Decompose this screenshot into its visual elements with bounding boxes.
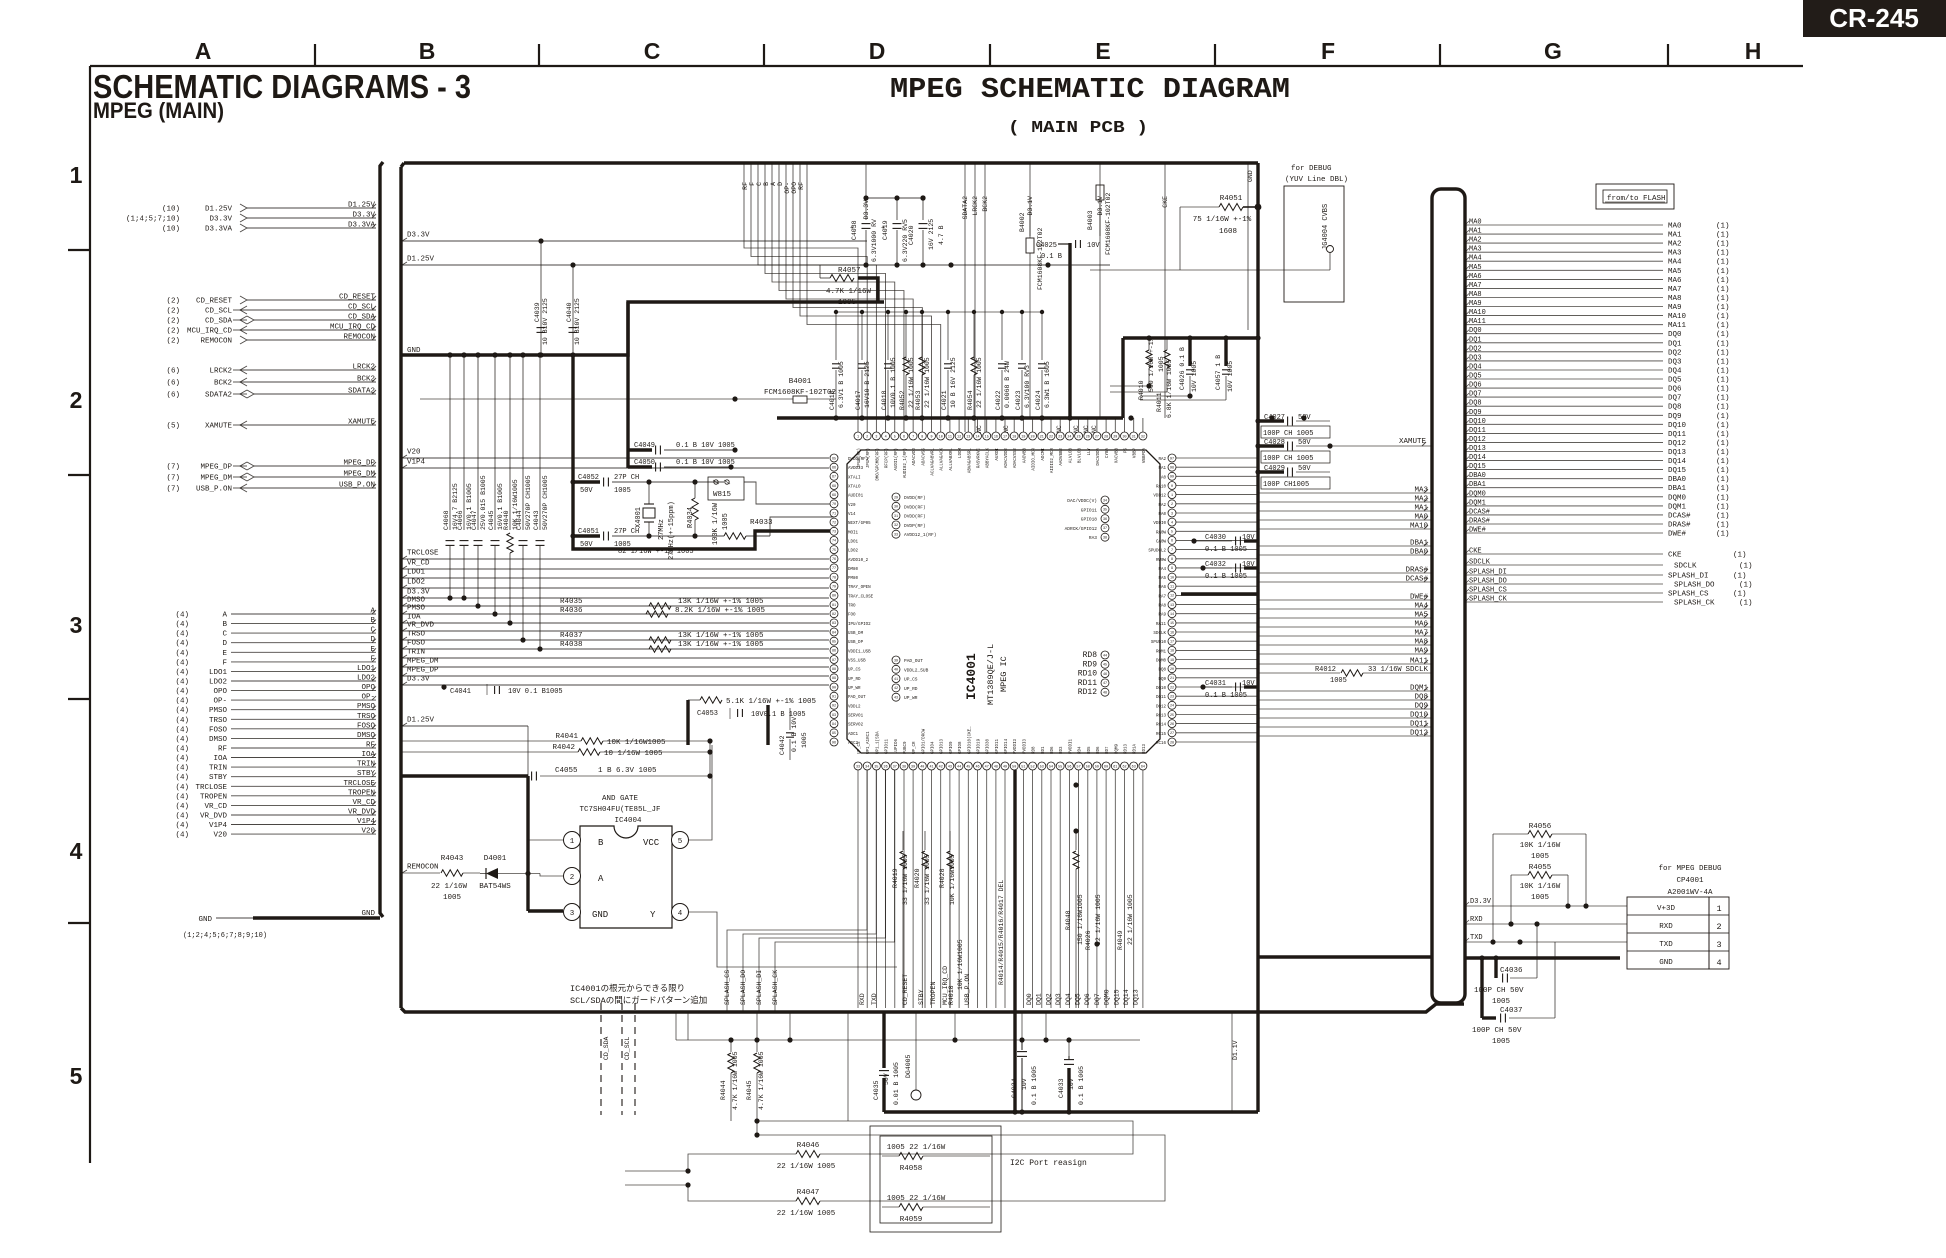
bottom right vertical wires	[676, 1012, 1046, 1040]
svg-text:R4040: R4040	[503, 510, 510, 530]
IC4001 top pin labels	[857, 448, 1147, 481]
svg-text:(1): (1)	[1716, 232, 1730, 240]
node D3.3V stub wire	[402, 589, 829, 599]
C4025 branch	[1068, 243, 1071, 418]
svg-text:CD_SCL: CD_SCL	[348, 304, 376, 312]
svg-text:MA10: MA10	[1668, 313, 1687, 321]
svg-text:33: 33	[894, 534, 898, 538]
svg-text:DMSO: DMSO	[209, 736, 228, 744]
svg-text:36: 36	[884, 765, 888, 769]
svg-text:3: 3	[1716, 940, 1721, 950]
svg-text:USB_DM: USB_DM	[848, 632, 864, 636]
node TRCLOSE stub wire	[402, 550, 829, 560]
svg-text:RD11: RD11	[1078, 679, 1097, 688]
svg-text:IC4004: IC4004	[614, 817, 642, 825]
svg-text:R4036: R4036	[560, 607, 583, 615]
svg-text:DQ8: DQ8	[1469, 400, 1482, 408]
svg-text:38: 38	[902, 765, 906, 769]
svg-text:MPEG_DP: MPEG_DP	[200, 464, 232, 472]
svg-text:75: 75	[832, 549, 836, 553]
wire net MA6	[1258, 621, 1432, 629]
svg-text:DQ2: DQ2	[1469, 345, 1482, 353]
svg-text:10V: 10V	[1242, 534, 1255, 542]
svg-text:ADACVDD: ADACVDD	[913, 448, 917, 466]
svg-text:RA6: RA6	[1158, 586, 1166, 590]
svg-text:(1): (1)	[1716, 458, 1730, 466]
svg-text:LDO2: LDO2	[357, 675, 375, 683]
svg-text:RASVRKVC: RASVRKVC	[978, 448, 982, 469]
svg-text:MPEG (MAIN): MPEG (MAIN)	[93, 98, 224, 123]
svg-text:R4046: R4046	[797, 1142, 820, 1150]
svg-text:AVDD10_2: AVDD10_2	[848, 559, 869, 563]
svg-text:XAMUTE: XAMUTE	[348, 419, 376, 427]
node D1.25V stub low	[402, 717, 528, 777]
svg-text:96: 96	[832, 741, 836, 745]
svg-text:R4041: R4041	[555, 733, 578, 741]
svg-text:GND: GND	[1247, 170, 1254, 182]
svg-text:MA4: MA4	[1469, 255, 1482, 263]
svg-text:B: B	[222, 621, 227, 629]
svg-text:(1): (1)	[1716, 476, 1730, 484]
svg-text:6.3V1000 RV: 6.3V1000 RV	[871, 219, 878, 262]
capacitor C4019	[881, 195, 909, 265]
node E (4)	[175, 646, 376, 658]
svg-text:95: 95	[832, 732, 836, 736]
svg-text:AUDI02_1(RF): AUDI02_1(RF)	[903, 448, 908, 478]
svg-text:R4038: R4038	[560, 641, 583, 649]
svg-text:ADACVSS: ADACVSS	[922, 448, 926, 466]
resistor R4045	[746, 1040, 765, 1138]
svg-text:50V270P CH1005: 50V270P CH1005	[542, 475, 549, 530]
svg-text:+: +	[881, 225, 885, 233]
resistor R4010	[1110, 337, 1165, 400]
ferrite bead B4003	[1087, 185, 1112, 418]
capacitor C4032	[1200, 561, 1258, 581]
crystal ground trace	[573, 355, 834, 549]
svg-text:IC4001の根元からできる限り: IC4001の根元からできる限り	[570, 983, 685, 994]
wire cluster top tie	[834, 310, 1044, 314]
svg-text:NC: NC	[1003, 425, 1010, 433]
svg-text:RD13: RD13	[1125, 743, 1129, 754]
svg-text:SDCLK: SDCLK	[1153, 632, 1166, 636]
svg-text:DQM1: DQM1	[1410, 685, 1429, 693]
node CD_RESET	[166, 294, 376, 306]
svg-text:AUXDI: AUXDI	[996, 448, 1000, 461]
svg-text:DACVDDA: DACVDDA	[1097, 448, 1101, 466]
svg-text:0.1 B 10V 1005: 0.1 B 10V 1005	[676, 442, 735, 450]
svg-text:(1): (1)	[1716, 223, 1730, 231]
svg-text:Y: Y	[650, 910, 656, 920]
svg-text:10K 1/16W: 10K 1/16W	[1520, 883, 1561, 891]
svg-text:32: 32	[1141, 435, 1145, 439]
svg-text:MT1389QE/J-L: MT1389QE/J-L	[986, 644, 996, 705]
svg-text:( MAIN PCB ): ( MAIN PCB )	[1008, 119, 1148, 138]
svg-text:(4): (4)	[175, 746, 189, 754]
svg-text:22: 22	[1049, 435, 1053, 439]
svg-text:12: 12	[1170, 595, 1174, 599]
svg-text:MPEG SCHEMATIC DIAGRAM: MPEG SCHEMATIC DIAGRAM	[890, 73, 1290, 106]
svg-text:FOSO: FOSO	[357, 722, 376, 730]
svg-text:12: 12	[957, 435, 961, 439]
svg-text:CKE: CKE	[1469, 548, 1482, 556]
diagram title	[890, 73, 1290, 138]
svg-text:(1): (1)	[1716, 512, 1730, 520]
svg-text:D3.3VA: D3.3VA	[348, 222, 376, 230]
C4033 thick stub	[1068, 1056, 1070, 1112]
wire staircase labels	[742, 182, 805, 194]
resistor R4053	[915, 312, 931, 421]
svg-text:DBA0: DBA0	[1469, 472, 1486, 480]
svg-text:(1): (1)	[1716, 295, 1730, 303]
svg-text:(4): (4)	[175, 784, 189, 792]
svg-text:DQ0: DQ0	[1469, 327, 1482, 335]
IC4001 bottom pin row	[854, 762, 1147, 770]
svg-text:55: 55	[1058, 765, 1062, 769]
svg-text:X4001: X4001	[635, 507, 643, 528]
svg-text:REMOCON: REMOCON	[200, 338, 232, 346]
svg-text:(6): (6)	[166, 380, 180, 388]
svg-text:PVDDI3: PVDDI3	[1014, 738, 1018, 754]
svg-text:22 1/16W 1005: 22 1/16W 1005	[1127, 894, 1134, 945]
node MPEG_DP stub wire	[402, 667, 829, 677]
wire RXD to CP4001	[1465, 916, 1627, 927]
svg-text:6.3V100 RV3: 6.3V100 RV3	[1024, 365, 1031, 408]
wire feed LRCK2	[972, 163, 979, 432]
svg-text:(1): (1)	[1716, 368, 1730, 376]
svg-text:2: 2	[570, 874, 575, 882]
svg-text:AUDI1(RF): AUDI1(RF)	[894, 448, 899, 471]
svg-text:3: 3	[875, 435, 877, 439]
wire feed SDATA2	[962, 163, 969, 432]
svg-text:R4054: R4054	[967, 390, 974, 410]
svg-text:4: 4	[1171, 521, 1173, 525]
svg-text:DQ15: DQ15	[1113, 989, 1120, 1005]
top ruler ticks	[315, 44, 1668, 66]
svg-text:LRCK2: LRCK2	[972, 196, 979, 216]
svg-text:6.3V1 B 1005: 6.3V1 B 1005	[838, 361, 845, 408]
svg-text:43: 43	[894, 697, 898, 701]
svg-text:41: 41	[894, 678, 898, 682]
svg-text:(5): (5)	[166, 423, 180, 431]
D1.1V bus upper right	[1123, 335, 1261, 418]
svg-text:DVDD(RF): DVDD(RF)	[904, 504, 926, 510]
node TROPEN (4)	[175, 789, 376, 801]
svg-text:23: 23	[1058, 435, 1062, 439]
GND wire to CP4001	[1258, 957, 1620, 958]
node C (4)	[175, 627, 376, 639]
svg-text:DQ11: DQ11	[1156, 696, 1167, 700]
svg-text:UP_RD: UP_RD	[848, 678, 861, 682]
svg-text:D: D	[869, 38, 886, 64]
svg-text:(4): (4)	[175, 755, 189, 763]
bottom right thick loop	[884, 1012, 1258, 1115]
svg-text:VDDI0: VDDI0	[1153, 522, 1166, 526]
svg-text:AIDIO2_MCR: AIDIO2_MCR	[1051, 448, 1055, 474]
svg-text:C: C	[756, 182, 763, 186]
svg-text:RA7: RA7	[1158, 595, 1166, 599]
svg-text:MA5: MA5	[1469, 264, 1482, 272]
svg-text:1 B 6.3V 1005: 1 B 6.3V 1005	[598, 767, 657, 775]
svg-text:C4031: C4031	[1205, 680, 1226, 688]
svg-text:MA9: MA9	[1469, 300, 1482, 308]
svg-text:D1.25V: D1.25V	[407, 256, 435, 264]
svg-text:LDO2: LDO2	[848, 550, 859, 554]
svg-text:22 1/16W 1005: 22 1/16W 1005	[908, 357, 915, 408]
svg-text:SDATA2: SDATA2	[962, 196, 969, 220]
svg-text:DQ13: DQ13	[1133, 989, 1140, 1005]
svg-text:97: 97	[1170, 457, 1174, 461]
svg-text:(4): (4)	[175, 822, 189, 830]
svg-text:1: 1	[1716, 904, 1721, 914]
svg-text:R4059: R4059	[900, 1216, 923, 1224]
left signal bus	[380, 162, 383, 917]
svg-text:13: 13	[966, 435, 970, 439]
wire feed GND2	[1247, 163, 1249, 330]
svg-text:10V: 10V	[1087, 242, 1100, 250]
svg-text:R4034: R4034	[687, 507, 695, 528]
svg-text:R4010: R4010	[1138, 380, 1145, 400]
svg-text:14: 14	[975, 435, 979, 439]
svg-text:0.1 B 10V: 0.1 B 10V	[791, 717, 798, 752]
svg-text:SPLASH_CS: SPLASH_CS	[1668, 591, 1709, 599]
svg-text:GPIO4: GPIO4	[932, 741, 936, 754]
svg-text:91: 91	[832, 696, 836, 700]
capacitor C4029	[1255, 465, 1330, 489]
capacitor C4018	[881, 312, 897, 421]
node D3.3VA input	[162, 222, 376, 234]
svg-text:27: 27	[1170, 732, 1174, 736]
svg-text:1005 22 1/16W: 1005 22 1/16W	[887, 1144, 946, 1152]
svg-text:R4044: R4044	[720, 1080, 727, 1100]
svg-text:(1): (1)	[1733, 591, 1747, 599]
svg-text:D3.3V: D3.3V	[1470, 898, 1492, 906]
capacitor C4045	[488, 352, 504, 616]
svg-text:(4): (4)	[175, 813, 189, 821]
svg-text:100K 1/16W: 100K 1/16W	[712, 502, 720, 545]
svg-text:UP1_1(SDA: UP1_1(SDA	[875, 731, 880, 754]
svg-text:B4002: B4002	[1019, 212, 1026, 232]
svg-text:(1;4;5;7;10): (1;4;5;7;10)	[126, 216, 180, 224]
svg-text:DQ11: DQ11	[1668, 431, 1687, 439]
svg-text:(1): (1)	[1716, 531, 1730, 539]
resistor R4059	[882, 1195, 990, 1224]
svg-text:22 1/16W 1005: 22 1/16W 1005	[1095, 894, 1102, 945]
capacitor C4026	[1140, 338, 1198, 399]
wire SPLASH jogs	[727, 770, 895, 1012]
resistor R4054	[967, 312, 983, 421]
svg-text:C4043: C4043	[533, 510, 540, 530]
svg-text:OP-: OP-	[784, 182, 791, 194]
row numbers	[70, 162, 83, 1089]
svg-text:XTALO: XTALO	[848, 486, 861, 490]
svg-text:10: 10	[939, 435, 943, 439]
svg-text:DQM0: DQM0	[1156, 660, 1167, 664]
svg-text:RD3: RD3	[1060, 746, 1064, 754]
wire feed D3.3VA	[863, 163, 870, 219]
svg-text:78: 78	[832, 576, 836, 580]
svg-text:RC16: RC16	[1156, 742, 1167, 746]
wire net MA1	[1258, 505, 1432, 513]
svg-text:RA1: RA1	[1158, 467, 1166, 471]
svg-text:CD_RESET: CD_RESET	[196, 298, 233, 306]
svg-text:C4050: C4050	[634, 459, 655, 467]
svg-text:DCAS#: DCAS#	[1668, 512, 1691, 520]
svg-text:D3.3V: D3.3V	[209, 216, 232, 224]
svg-text:UP_WR: UP_WR	[848, 687, 861, 691]
svg-text:(10): (10)	[162, 226, 180, 234]
svg-text:OPO: OPO	[213, 688, 227, 696]
svg-text:38: 38	[1103, 537, 1107, 541]
svg-text:22 1/16W: 22 1/16W	[431, 883, 468, 891]
svg-text:(1): (1)	[1716, 485, 1730, 493]
svg-text:DQ4: DQ4	[1469, 364, 1482, 372]
svg-text:R4026: R4026	[1085, 930, 1092, 950]
node CD_SDA	[166, 314, 376, 326]
svg-text:SPLASH_DI: SPLASH_DI	[756, 970, 763, 1005]
wire net DWE#	[1258, 594, 1432, 602]
svg-text:F: F	[222, 659, 227, 667]
svg-text:47: 47	[1103, 682, 1107, 686]
svg-text:33: 33	[856, 765, 860, 769]
capacitor C4033	[1058, 1037, 1085, 1105]
capacitor C4016	[829, 312, 845, 421]
node FOSO stub wire	[402, 640, 829, 650]
svg-text:(1): (1)	[1716, 358, 1730, 366]
svg-text:43: 43	[948, 765, 952, 769]
capacitor C4040	[566, 262, 581, 357]
svg-text:MA10: MA10	[1469, 309, 1486, 317]
svg-text:DQ14: DQ14	[1668, 458, 1687, 466]
node TRSO (4)	[175, 713, 376, 725]
resistor R4040	[503, 352, 519, 625]
svg-text:35: 35	[874, 765, 878, 769]
svg-text:D1.25V: D1.25V	[205, 206, 233, 214]
svg-text:UP_RD: UP_RD	[904, 686, 918, 692]
svg-text:1: 1	[70, 162, 83, 188]
left ruler line	[89, 66, 91, 1163]
resistor R4041	[402, 733, 713, 747]
svg-text:14: 14	[1170, 613, 1174, 617]
capacitor C4037	[1472, 942, 1555, 1046]
wire net DRAS#	[1258, 567, 1432, 575]
capacitor C4052	[570, 474, 649, 495]
svg-text:34: 34	[1103, 499, 1107, 503]
svg-text:89: 89	[832, 677, 836, 681]
svg-text:RD1: RD1	[1042, 746, 1046, 754]
svg-text:ADC2: ADC2	[848, 742, 859, 746]
svg-text:(1): (1)	[1716, 250, 1730, 258]
wire net DQ9	[1258, 703, 1432, 711]
svg-text:DQ7: DQ7	[1469, 391, 1482, 399]
svg-text:RA0: RA0	[1158, 513, 1166, 517]
svg-text:DQ10: DQ10	[1469, 418, 1486, 426]
node MPEG_DM stub wire	[402, 658, 829, 668]
svg-text:10 B10V 2125: 10 B10V 2125	[542, 298, 549, 345]
svg-text:C4016: C4016	[829, 390, 836, 410]
svg-text:18: 18	[1170, 650, 1174, 654]
svg-text:LDO1: LDO1	[848, 540, 859, 544]
svg-text:21: 21	[1170, 677, 1174, 681]
svg-text:57: 57	[1077, 765, 1081, 769]
IC4001 inner pins RD	[1078, 651, 1109, 697]
svg-text:CD_SDA: CD_SDA	[348, 314, 376, 322]
node TRIN stub wire	[402, 649, 829, 659]
svg-text:8.2K 1/16W +-1% 1005: 8.2K 1/16W +-1% 1005	[675, 607, 766, 615]
capacitor C4047	[471, 352, 487, 608]
node IOA (4)	[175, 751, 376, 763]
svg-text:BCK2: BCK2	[982, 196, 989, 212]
svg-text:0.1 B 1005: 0.1 B 1005	[1031, 1066, 1038, 1105]
svg-text:SPUDCL2: SPUDCL2	[1148, 550, 1166, 554]
svg-text:ALLVAGACK: ALLVAGACK	[941, 448, 945, 471]
svg-text:R4047: R4047	[797, 1189, 820, 1197]
svg-text:DCAS#: DCAS#	[1405, 576, 1428, 584]
svg-text:DRAS#: DRAS#	[1469, 518, 1490, 526]
svg-text:26: 26	[1170, 723, 1174, 727]
resistor R4051	[1180, 195, 1261, 270]
svg-text:22: 22	[1170, 686, 1174, 690]
svg-text:9: 9	[930, 435, 932, 439]
svg-text:R4019: R4019	[892, 868, 899, 888]
svg-text:SPLASH_DO: SPLASH_DO	[1674, 582, 1715, 590]
svg-text:16V 2125: 16V 2125	[928, 219, 935, 250]
svg-text:25: 25	[1170, 714, 1174, 718]
svg-text:6.8K 1/16W 1005: 6.8K 1/16W 1005	[1166, 359, 1173, 418]
svg-text:SDATA2: SDATA2	[205, 392, 232, 400]
svg-text:16: 16	[1170, 631, 1174, 635]
svg-text:DQ12: DQ12	[1410, 730, 1428, 738]
svg-text:R4056: R4056	[1529, 823, 1552, 831]
svg-text:ABVAGABSRL: ABVAGABSRL	[968, 448, 972, 474]
svg-text:10V: 10V	[1242, 680, 1255, 688]
svg-text:(YUV Line DBL): (YUV Line DBL)	[1285, 176, 1348, 184]
svg-text:TRCLOSE: TRCLOSE	[195, 784, 227, 792]
svg-text:40: 40	[894, 669, 898, 673]
svg-text:22 1/16W 1005: 22 1/16W 1005	[924, 357, 931, 408]
svg-text:MA4: MA4	[1668, 259, 1682, 267]
svg-text:32: 32	[894, 524, 898, 528]
svg-text:1005: 1005	[801, 732, 808, 748]
svg-text:MCU_IRQ_CD: MCU_IRQ_CD	[187, 328, 233, 336]
svg-text:(1): (1)	[1716, 449, 1730, 457]
svg-text:CKE: CKE	[1162, 196, 1169, 208]
svg-text:(4): (4)	[175, 669, 189, 677]
resistor R4036	[560, 607, 766, 617]
svg-text:(1): (1)	[1716, 340, 1730, 348]
svg-text:35: 35	[1103, 509, 1107, 513]
svg-text:79: 79	[832, 586, 836, 590]
svg-text:LDO2: LDO2	[209, 679, 227, 687]
svg-text:(4): (4)	[175, 736, 189, 744]
svg-text:ACLVAGABVRL: ACLVAGABVRL	[932, 448, 936, 476]
svg-text:V1P4: V1P4	[209, 822, 228, 830]
node LDO1 (4)	[175, 665, 376, 677]
svg-text:ADACVSS2: ADACVSS2	[1014, 448, 1018, 469]
svg-text:5: 5	[894, 435, 896, 439]
wire net MA4	[1258, 603, 1432, 611]
svg-text:C4023: C4023	[1015, 390, 1022, 410]
svg-text:DQ5: DQ5	[1075, 993, 1082, 1005]
svg-text:ADCMI: ADCMI	[1042, 448, 1046, 461]
connector CP4001	[1627, 865, 1729, 969]
op-amp U-block IC4001 body	[847, 450, 1160, 753]
svg-text:SCL/SDAの間にガードパターン追加: SCL/SDAの間にガードパターン追加	[570, 995, 707, 1006]
wires IC top pins to bus	[950, 418, 1143, 432]
bottom DQ labels	[1026, 989, 1140, 1005]
capacitor C4055	[402, 767, 713, 781]
power bus junctions	[833, 415, 1306, 420]
svg-text:PMSO: PMSO	[407, 605, 426, 613]
